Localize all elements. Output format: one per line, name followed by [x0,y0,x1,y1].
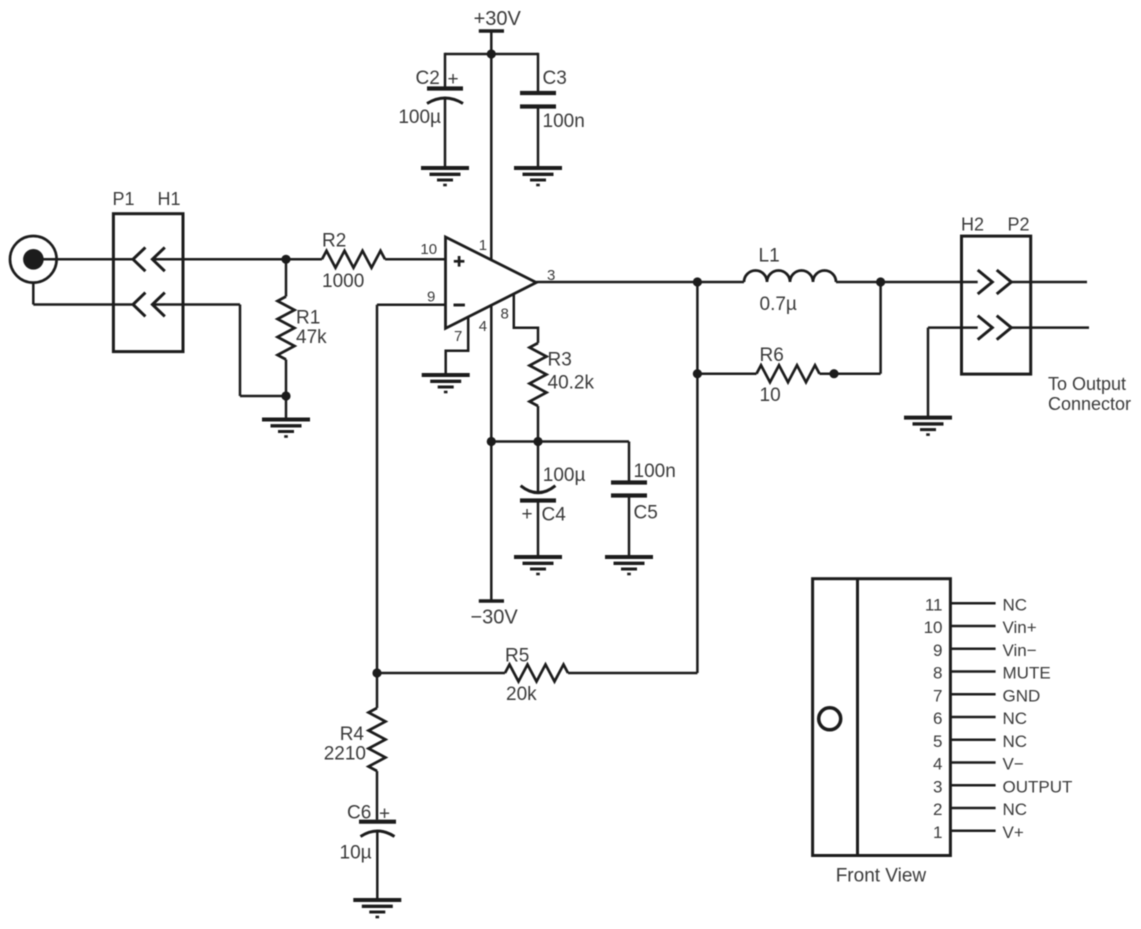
svg-text:R1: R1 [296,308,320,329]
svg-text:100µ: 100µ [398,107,441,128]
svg-text:V−: V− [1003,755,1024,774]
svg-text:10µ: 10µ [340,843,372,864]
svg-text:9: 9 [427,289,435,306]
svg-text:2210: 2210 [324,744,366,765]
svg-text:To Output: To Output [1048,374,1126,394]
svg-text:−30V: −30V [471,607,519,629]
svg-text:4: 4 [933,755,942,774]
svg-text:OUTPUT: OUTPUT [1003,777,1073,796]
svg-text:V+: V+ [1003,823,1024,842]
svg-text:5: 5 [933,732,942,751]
svg-text:6: 6 [933,709,942,728]
svg-text:R5: R5 [505,646,529,667]
svg-text:R3: R3 [548,350,572,371]
svg-text:1: 1 [479,237,487,254]
svg-text:NC: NC [1003,732,1028,751]
svg-text:0.7µ: 0.7µ [760,294,797,315]
svg-text:H1: H1 [158,189,181,209]
svg-text:NC: NC [1003,595,1028,614]
svg-text:+: + [379,804,390,825]
svg-text:Vin−: Vin− [1003,641,1037,660]
svg-text:C5: C5 [634,503,658,524]
svg-text:+30V: +30V [474,8,522,30]
svg-text:P1: P1 [113,189,135,209]
svg-text:7: 7 [933,686,942,705]
svg-text:R6: R6 [760,345,784,366]
svg-text:20k: 20k [506,684,537,705]
svg-text:Connector: Connector [1048,394,1131,414]
svg-text:NC: NC [1003,800,1028,819]
svg-text:8: 8 [933,664,942,683]
svg-text:R2: R2 [322,230,346,251]
svg-text:10: 10 [420,241,437,258]
svg-text:H2: H2 [961,215,984,235]
svg-text:C2: C2 [416,68,440,89]
svg-text:Front View: Front View [836,866,927,887]
svg-text:100µ: 100µ [543,465,586,486]
svg-text:10: 10 [760,385,781,406]
svg-text:40.2k: 40.2k [548,373,595,394]
svg-text:3: 3 [933,777,942,796]
svg-text:L1: L1 [759,245,780,266]
svg-text:+: + [522,504,533,525]
svg-text:100n: 100n [543,111,585,132]
svg-text:11: 11 [925,595,943,614]
svg-text:100n: 100n [634,461,676,482]
svg-text:C3: C3 [543,68,567,89]
svg-text:2: 2 [933,800,942,819]
svg-text:C4: C4 [542,505,567,526]
svg-text:+: + [448,69,459,90]
svg-text:NC: NC [1003,709,1028,728]
svg-text:47k: 47k [296,327,327,348]
svg-text:7: 7 [454,328,462,345]
svg-text:8: 8 [501,306,509,323]
svg-text:10: 10 [924,618,943,637]
svg-text:R4: R4 [340,724,365,745]
svg-text:Vin+: Vin+ [1003,618,1037,637]
svg-text:MUTE: MUTE [1003,664,1051,683]
svg-text:C6: C6 [347,803,371,824]
svg-text:1000: 1000 [322,271,364,292]
svg-text:1: 1 [933,823,942,842]
svg-text:4: 4 [479,318,487,335]
svg-text:P2: P2 [1008,215,1030,235]
svg-text:GND: GND [1003,686,1041,705]
svg-text:9: 9 [933,641,942,660]
